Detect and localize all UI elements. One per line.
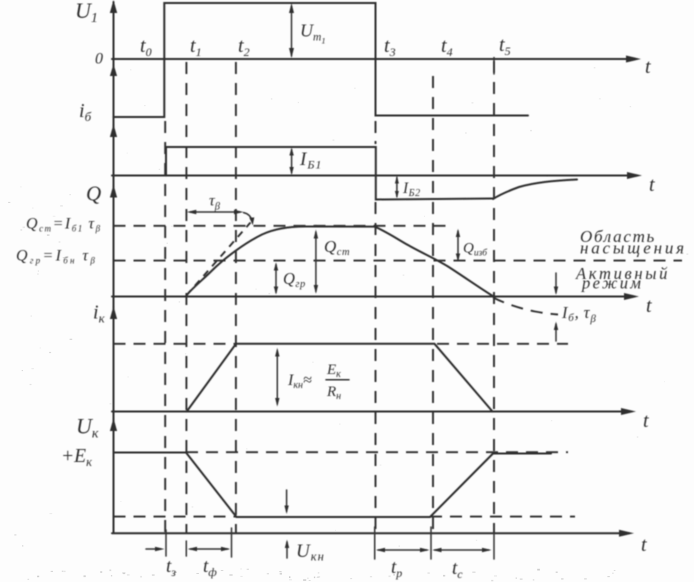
time axis 4 (i_k) [112, 411, 631, 413]
Qst dashed level [114, 225, 452, 227]
Y axis arrowhead i_b [110, 124, 117, 137]
svg-text:t: t [641, 534, 647, 556]
i_k waveform [187, 344, 493, 412]
Qgr dimension arrow [275, 265, 277, 293]
bottom tick t5 [493, 527, 495, 559]
U_k solid level right [493, 453, 551, 455]
Q dashed curve below axis [493, 298, 558, 315]
svg-text:t: t [643, 410, 649, 432]
U_k rising edge [430, 454, 493, 518]
Y axis main vertical [113, 2, 115, 533]
bottom tick t3 [374, 527, 376, 559]
svg-text:насыщения: насыщения [580, 239, 687, 258]
svg-text:t: t [649, 174, 655, 196]
bottom tick t0 [165, 530, 167, 556]
bottom tick t1 [185, 541, 187, 556]
dashed vertical t5 [493, 61, 495, 533]
tau_beta dimension [190, 211, 240, 213]
Y axis arrowhead U_k [110, 418, 117, 431]
+Ek level solid left [114, 452, 187, 454]
svg-text:Qгр=Iбн τβ: Qгр=Iбн τβ [16, 248, 97, 266]
I_B1 dimension arrow [291, 150, 293, 174]
svg-text:0: 0 [95, 51, 103, 68]
i_k dashed top level left [114, 343, 237, 345]
t_f dimension [190, 548, 228, 550]
U1 waveform [114, 3, 529, 117]
U_kn dashed level left [114, 516, 237, 518]
down arrow at axis (active region) [555, 273, 557, 293]
+Ek dashed level [186, 451, 568, 453]
Y axis arrowhead Q [110, 185, 117, 198]
bottom tick t4 [430, 527, 432, 559]
dashed vertical t0 [164, 121, 166, 533]
time axis 1 (U1) [112, 58, 636, 60]
time axis 3 (Q) [112, 296, 634, 298]
t_r dimension [378, 549, 427, 551]
I_kn dimension arrow [276, 351, 278, 405]
Y axis arrowhead i_k [110, 306, 117, 319]
Qizb dimension arrow [457, 231, 459, 260]
Qgr dashed level [114, 260, 683, 262]
bottom tick t2 [231, 528, 233, 557]
t_z dimension [146, 548, 161, 550]
svg-text:t: t [645, 56, 651, 78]
t_c dimension [435, 549, 490, 551]
U_kn dashed level right [430, 516, 575, 518]
svg-text:t: t [646, 295, 652, 317]
U_kn up arrow below axis [286, 542, 288, 558]
Y axis arrowhead below axis1 [110, 64, 117, 76]
Y axis arrowhead U1 top [110, 0, 117, 13]
i_k dashed top level right [437, 343, 568, 345]
tick t5 on axis1 [493, 58, 495, 75]
dashed vertical t2 [235, 62, 237, 533]
Qst dimension arrow [315, 232, 317, 292]
U_kn solid level [237, 516, 431, 518]
i_b recovery curve [493, 180, 577, 200]
up arrow to asymptote [555, 324, 557, 341]
I_B2 dimension arrow [396, 178, 398, 197]
dashed vertical t1 [185, 62, 187, 533]
Um1 dimension arrow [291, 6, 293, 56]
Q curve rising [186, 226, 374, 295]
svg-text:режим: режим [581, 274, 643, 293]
Q dashed tangent [186, 223, 250, 296]
dashed vertical t3 [375, 121, 377, 144]
U_kn down arrow [286, 490, 288, 512]
Q curve falling [375, 227, 493, 296]
dashed vertical t4 [432, 76, 434, 533]
svg-text:Q: Q [86, 182, 101, 206]
time axis 2 (i_b) [112, 175, 637, 177]
i_b waveform [166, 147, 493, 200]
time axis 5 (U_k) [112, 532, 629, 534]
U_k falling edge [186, 453, 237, 518]
svg-text:Qст=Iб1 τβ: Qст=Iб1 τβ [26, 216, 102, 234]
